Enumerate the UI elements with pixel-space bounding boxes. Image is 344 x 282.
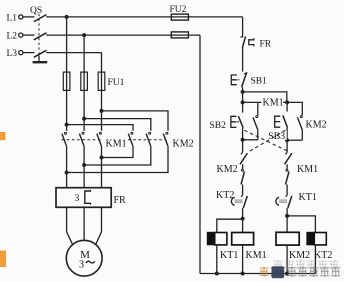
contact KM1 NC interlock [286, 169, 290, 184]
node phase3 above KM1 [100, 109, 104, 113]
button SB3 NO [275, 115, 288, 127]
node rail KM2 [285, 272, 289, 276]
button SB3 label backing [267, 131, 287, 140]
svg-text:KM2: KM2 [217, 164, 238, 175]
svg-text:KT1: KT1 [220, 250, 238, 261]
wire feed to KM2 aux [287, 102, 302, 115]
node phase1 below KM1 [65, 171, 69, 175]
contact KM2 NC interlock [241, 169, 245, 184]
wire KT1 coil to rail [216, 245, 218, 274]
wire KM2 coil to rail [286, 245, 288, 273]
wire SB2 bottom [242, 128, 244, 140]
svg-text:L1: L1 [7, 14, 18, 24]
wire between NC contacts branch A [242, 164, 244, 169]
terminal L1 circle [19, 15, 23, 19]
contactor KM2 pole2 [146, 132, 151, 146]
svg-text:KM1: KM1 [297, 164, 318, 175]
svg-text:FU2: FU2 [170, 5, 187, 15]
watermark bottom right main gray row [276, 267, 340, 278]
wire branch A to NC row [242, 140, 244, 153]
fuse FU2 lower [171, 32, 188, 38]
button SB1 NC [231, 73, 247, 88]
switch QS pole 1 blade [34, 15, 47, 22]
node phase1 above KM1 [65, 123, 69, 127]
wire phase2 below KM1 [83, 146, 85, 188]
wire L3 terminal to QS [23, 52, 34, 54]
wire bottom rail [200, 273, 315, 275]
wire L3 bus [46, 52, 101, 54]
contact KT2 time delay NO [231, 195, 247, 208]
wire branch B upper [286, 102, 288, 111]
wire phase3 to motor [96, 207, 102, 244]
svg-text:QS: QS [30, 6, 42, 16]
svg-text:3: 3 [79, 259, 84, 270]
svg-text:L3: L3 [7, 49, 18, 59]
wire return KM2 pole1 bottom [102, 146, 134, 158]
watermark bottom right orange characters [260, 267, 280, 277]
wire phase3 below KM1 [101, 146, 103, 188]
contactor KM2 pole1 [128, 132, 133, 146]
svg-text:KM2: KM2 [173, 138, 194, 149]
node rail KM1 [241, 272, 245, 276]
wire KM1 coil to rail [242, 245, 244, 274]
svg-text:SB2: SB2 [210, 121, 227, 131]
svg-text:3: 3 [75, 194, 80, 204]
coil KT2 delay element [306, 232, 314, 246]
coil KT1 delay element [207, 232, 215, 246]
node branch A bottom of parallel [241, 138, 245, 142]
wire control L1 drop [242, 17, 244, 37]
wire into KM2 coil [286, 216, 288, 232]
contactor KM2 pole3 [163, 132, 168, 146]
wire L2 terminal to QS [23, 34, 34, 36]
terminal L3 circle [19, 51, 23, 55]
wire branch A parallel bottom [243, 139, 258, 141]
wire branch A to KT2 [242, 185, 244, 196]
svg-text:KM1: KM1 [263, 98, 284, 109]
switch QS pole 2 blade [34, 33, 47, 40]
node phase3 below KM1 [100, 156, 104, 160]
svg-text:FU1: FU1 [108, 78, 125, 88]
contact FR NC thermal [240, 36, 253, 48]
contactor KM1 pole2 [79, 132, 84, 146]
wire SB3 bottom [286, 128, 288, 141]
wire return KM2 pole3 bottom [67, 146, 168, 173]
wire KT2 coil to rail [314, 245, 316, 274]
fuse FU2 upper [171, 14, 188, 20]
coil KM1 box [232, 233, 254, 245]
thermal relay FR box [56, 188, 111, 208]
wire to KT1 coil [217, 219, 243, 232]
contact SB3 NC in branch A [240, 152, 247, 164]
wire branch B to NC row [286, 140, 288, 152]
wire top distribution after SB1 [243, 92, 287, 103]
wire L2 bus [46, 34, 200, 36]
contactor KM2 linkage dashed [128, 139, 165, 141]
svg-text:KT1: KT1 [299, 192, 317, 203]
wire branch B to node [286, 208, 288, 216]
contact KM1 aux label backing [262, 96, 284, 106]
coil KT1 box [215, 233, 227, 245]
node phase2 tap junction [82, 33, 86, 37]
wire control L2 rail left [199, 35, 201, 273]
svg-text:SB3: SB3 [268, 131, 285, 142]
node branch A coil split [241, 217, 245, 221]
mechanical link dashed SB2 to branch B [244, 130, 288, 151]
node branch A top [241, 100, 245, 104]
wire branch A to node [242, 208, 244, 219]
wire cross distribution to branch B [243, 101, 288, 103]
wire phase2 to motor [83, 207, 85, 240]
svg-text:KM1: KM1 [246, 250, 267, 261]
contact KM1 aux NO self-hold [253, 102, 258, 139]
wire phase1 vertical upper [66, 17, 68, 131]
motor tilde symbol [86, 261, 95, 263]
contact KM2 aux NO self-hold [287, 116, 302, 141]
motor M circle [66, 240, 102, 276]
watermark fragment left upper [0, 132, 6, 140]
wire phase3 vertical upper [101, 53, 103, 131]
svg-text:FR: FR [260, 39, 272, 49]
node rail KT1 [215, 272, 219, 276]
node phase1 tap junction [65, 15, 69, 19]
node branch B bottom of parallel [285, 138, 289, 142]
terminal L2 circle [19, 33, 23, 37]
wire phase1 to motor [67, 207, 73, 244]
contactor KM1 pole1 [62, 132, 67, 146]
contact SB2 NC in branch B [285, 152, 292, 164]
svg-text:KT2: KT2 [314, 250, 332, 261]
wire feed KM2 pole3 top [102, 111, 169, 131]
wire branch B to KT1 [286, 185, 288, 196]
watermark bottom right dark blob [272, 266, 285, 278]
switch QS linkage stem [38, 56, 40, 62]
wire L1 terminal to QS [23, 16, 34, 18]
wire L1 bus [46, 16, 242, 18]
wire return KM2 pole2 bottom [84, 146, 151, 165]
wire into KM1 coil [242, 219, 244, 232]
fuse FU1 phase1 [63, 72, 70, 90]
watermark bottom right upper echo row [274, 260, 339, 270]
switch QS pole 3 blade [34, 50, 47, 57]
wire FR to SB1 [242, 48, 244, 72]
svg-text:KT2: KT2 [216, 190, 234, 201]
watermark fragment left lower [0, 251, 6, 268]
wire feed KM2 pole2 top [84, 119, 151, 131]
switch QS linkage dashed [38, 14, 40, 56]
wire SB1 to node [242, 87, 244, 112]
svg-text:L2: L2 [7, 32, 18, 42]
wire phase1 below KM1 [66, 146, 68, 188]
svg-text:KM2: KM2 [289, 250, 310, 261]
wire feed KM2 pole1 top [67, 125, 133, 131]
contactor KM1 pole3 [97, 132, 102, 146]
fuse FU1 phase2 [81, 72, 88, 90]
switch QS handle bar [33, 61, 48, 63]
wire to KT2 coil [287, 216, 315, 233]
wire between NC contacts branch B [286, 164, 288, 169]
mechanical link dashed SB3 to branch A [249, 130, 286, 151]
node phase2 below KM1 [82, 163, 86, 167]
contactor KM1 linkage dashed [62, 139, 103, 141]
svg-text:KM2: KM2 [306, 119, 327, 130]
thermal relay FR heater symbol [85, 190, 91, 205]
coil KM2 box [276, 232, 299, 245]
svg-text:SB1: SB1 [251, 76, 268, 86]
wire phase2 vertical upper [83, 35, 85, 131]
node phase2 above KM1 [82, 117, 86, 121]
svg-text:FR: FR [114, 195, 127, 206]
svg-text:KM1: KM1 [106, 138, 127, 149]
node after SB1 [241, 90, 245, 94]
contact KT1 time delay NO [276, 195, 292, 208]
fuse FU1 phase3 [98, 72, 105, 90]
coil KT2 box [314, 233, 326, 245]
node branch B coil split [285, 214, 289, 218]
node branch B top [285, 100, 289, 104]
button SB2 NO [231, 116, 243, 127]
